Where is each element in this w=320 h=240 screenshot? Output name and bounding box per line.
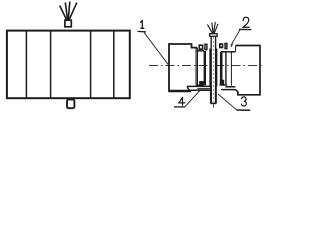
right ring plate bar [220,52,223,80]
left housing right wall [196,48,198,86]
left bottom wing lower line [189,89,210,91]
left figure divider line b [50,31,52,99]
shaft right line [215,36,217,103]
left bottom wing top line [187,86,209,90]
left ring plate bar [204,51,206,85]
right wall line [225,52,227,84]
right terminal box (open left side) [236,46,260,95]
right bracket vertical [230,52,232,86]
label 2 leader line [231,30,240,46]
label 4 leader underline [174,106,185,108]
left figure divider line a [25,31,27,99]
label 3 underline [236,109,250,111]
shaft bottom cap [210,102,216,104]
left figure brush bristle 2 [65,3,67,21]
shaft lower left thickening [210,86,212,103]
label 1 digit [141,20,144,28]
shaft bottom axis tick [212,104,214,107]
right bottom cap line [220,84,228,86]
left figure brush bristle 1 [60,6,67,21]
left terminal nut A [199,45,202,49]
label 4 leader line [185,91,200,107]
left figure bottom stud square [67,100,74,109]
right figure: horizontal dash-dot centerline [149,64,265,66]
left figure brush bristle 3 [68,2,70,21]
shaft brush bristle 3 [214,22,216,33]
left figure top brush square [65,20,71,27]
left figure divider line d [113,31,115,99]
left shaft sleeve thickening [209,49,211,87]
left bottom nut A [200,82,203,85]
right box lip vertical [235,46,237,52]
label 2 digit [243,17,249,27]
left figure brush bristle 4 [69,3,77,21]
right shaft sleeve thickening [215,49,217,87]
right terminal nut A [220,44,223,48]
label 3 digit [241,97,246,106]
left plate cap top [197,50,205,52]
shaft top cap [210,34,217,37]
label 3 leader line [218,94,237,110]
left housing outer profile [169,44,197,91]
shaft brush bristle 4 [214,24,218,33]
label 4 digit [179,97,185,105]
right terminal nut B [225,43,227,48]
left figure: roller body outline [7,31,130,99]
left housing inner wall line [195,48,197,86]
left bottom wing mid line [197,88,210,90]
shaft lower right thickening [215,86,217,103]
right bottom wing top line [225,86,235,88]
left housing bottom edge [168,90,191,92]
label 2 arrowhead [230,43,233,47]
shaft left line [210,36,212,103]
left figure divider line c [90,31,92,99]
label 1 leader line [144,32,169,65]
left bottom cap line [197,84,204,86]
label 1 leader underline [138,30,147,33]
shaft brush bristle 1 [207,25,212,34]
shaft brush bristle 2 [212,23,213,34]
label 2 leader underline [239,28,251,30]
left terminal nut B [205,44,207,49]
right bottom nut [221,81,224,84]
right bottom wing lower line [221,90,238,92]
right plate cap top [221,51,236,53]
shaft center dashed axis [212,37,214,102]
